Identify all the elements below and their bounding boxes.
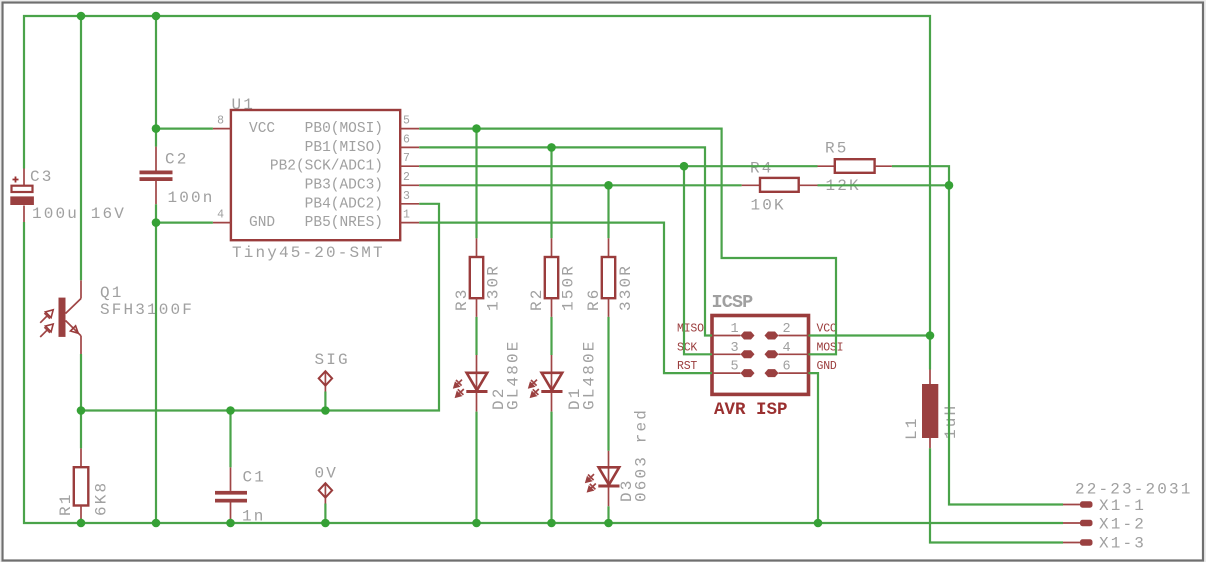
wire C1 top: [229, 411, 231, 468]
pin number 6: [403, 133, 410, 146]
wire ICSP GND to 0V bus: [809, 373, 819, 523]
ICSP signal VCC: [817, 323, 837, 336]
wire R1 top: [80, 411, 82, 449]
ICSP pin number 6: [783, 360, 791, 375]
svg-text:6: 6: [783, 360, 791, 375]
svg-text:Tiny45-20-SMT: Tiny45-20-SMT: [232, 244, 385, 262]
svg-text:PB3(ADC3): PB3(ADC3): [305, 178, 383, 194]
value D2 GL480E: [505, 339, 523, 410]
junction 0V bus D2: [472, 519, 481, 528]
svg-text:150R: 150R: [560, 264, 578, 311]
svg-text:PB4(ADC2): PB4(ADC2): [305, 196, 383, 212]
wire Q1 collector: [80, 16, 82, 280]
svg-text:R5: R5: [825, 140, 849, 158]
pin label PB5(NRES): [305, 215, 383, 231]
svg-text:MOSI: MOSI: [817, 341, 844, 354]
net label 0V: [315, 465, 339, 483]
wire D3 to 0V bus: [607, 506, 609, 523]
svg-text:1: 1: [403, 209, 410, 222]
wire 0V symbol stub: [324, 504, 326, 524]
svg-text:PB5(NRES): PB5(NRES): [305, 215, 383, 231]
LED D3: [585, 451, 620, 507]
op-amp U1 ATtiny45 box: [231, 110, 400, 240]
svg-text:C2: C2: [165, 151, 189, 169]
junction SIG bus Q1: [77, 406, 86, 415]
svg-text:6: 6: [403, 133, 410, 146]
svg-text:X1-3: X1-3: [1099, 535, 1146, 553]
wire C2 top: [155, 16, 157, 147]
label R3: [453, 287, 471, 311]
ICSP pin number 5: [731, 360, 739, 375]
pin 7 stub: [400, 165, 419, 167]
junction 0V bus D1: [547, 519, 556, 528]
connector pin X1-2: [1063, 520, 1093, 526]
value C2 100n: [168, 189, 215, 207]
pin label VCC: [249, 121, 275, 137]
junction SIG bus C1: [226, 406, 235, 415]
label C1: [243, 469, 267, 487]
connector pin X1-1: [1063, 501, 1093, 507]
value R4 10K: [751, 197, 786, 215]
wire VCC top bus to L1: [24, 16, 930, 370]
junction pin8 C2: [152, 124, 161, 133]
svg-text:4: 4: [217, 209, 224, 222]
wire net MOSI pin5 to ICSP pad4: [419, 129, 836, 355]
junction top bus Q1: [77, 12, 86, 21]
wire R3 top: [475, 129, 477, 239]
svg-text:R6: R6: [585, 287, 603, 311]
svg-text:10K: 10K: [751, 197, 786, 215]
svg-text:X1-1: X1-1: [1099, 497, 1146, 515]
svg-text:8: 8: [217, 115, 224, 128]
value C3 100u 16V: [32, 205, 126, 223]
label X1-3: [1099, 535, 1146, 553]
svg-text:5: 5: [731, 360, 739, 375]
ICSP pin 2 pad: [765, 332, 809, 340]
junction 0V bus ICSP GND: [814, 519, 823, 528]
wire net PB3 pin2 to R4: [419, 184, 741, 186]
wire pin4 GND: [156, 222, 213, 224]
junction R4 R5 X1-1: [945, 181, 954, 190]
label X1-2: [1099, 516, 1146, 534]
svg-text:L1: L1: [903, 416, 921, 440]
svg-text:SCK: SCK: [677, 341, 697, 354]
pin number 2: [403, 171, 410, 184]
label C3: [30, 168, 54, 186]
junction ICSP VCC rail: [926, 331, 935, 340]
wire SIG bus to pin3: [81, 204, 439, 411]
resistor R2: [545, 238, 558, 317]
svg-text:C3: C3: [30, 168, 54, 186]
label L1: [903, 416, 921, 440]
wire junction to X1-1: [949, 185, 1063, 504]
svg-text:22-23-2031: 22-23-2031: [1075, 481, 1193, 499]
svg-text:PB2(SCK/ADC1): PB2(SCK/ADC1): [270, 159, 383, 175]
pin number 5: [403, 115, 410, 128]
label ICSP: [712, 292, 754, 313]
svg-text:100u 16V: 100u 16V: [32, 205, 126, 223]
pin number 3: [403, 190, 410, 203]
svg-text:R4: R4: [750, 160, 774, 178]
junction 0V bus symbol: [321, 519, 330, 528]
resistor R4: [742, 178, 818, 192]
svg-text:GND: GND: [817, 360, 837, 373]
value R2 150R: [560, 264, 578, 311]
svg-text:4: 4: [783, 341, 791, 356]
svg-text:GL480E: GL480E: [505, 339, 523, 410]
label C2: [165, 151, 189, 169]
pin 3 stub: [400, 203, 419, 205]
value R6 330R: [617, 264, 635, 311]
value X1 22-23-2031: [1075, 481, 1193, 499]
resistor R3: [470, 238, 483, 317]
junction 0V bus C2: [152, 519, 161, 528]
svg-text:0V: 0V: [315, 465, 339, 483]
ICSP value AVR ISP: [714, 400, 788, 420]
svg-text:X1-2: X1-2: [1099, 516, 1146, 534]
value C1 1n: [242, 508, 266, 526]
wire ICSP VCC to L1: [809, 334, 931, 336]
pin 5 stub: [400, 128, 419, 130]
wire L1 bottom to X1-3: [930, 448, 1063, 542]
svg-text:MISO: MISO: [677, 323, 704, 336]
wire net SCK branch to ICSP pad3: [684, 166, 712, 354]
junction 0V bus R1: [77, 519, 86, 528]
capacitor C3: [10, 169, 34, 223]
ICSP signal SCK: [677, 341, 697, 354]
junction pin4 C2: [152, 218, 161, 227]
junction pin2 R6: [604, 181, 613, 190]
pin 4 GND stub: [213, 222, 231, 224]
supply symbol SIG: [319, 371, 332, 391]
svg-text:AVR ISP: AVR ISP: [714, 400, 788, 420]
ICSP pin 3 pad: [712, 350, 755, 358]
label U1: [232, 96, 256, 114]
svg-text:C1: C1: [243, 469, 267, 487]
svg-text:U1: U1: [232, 96, 256, 114]
junction top bus C2: [152, 12, 161, 21]
svg-text:SIG: SIG: [315, 351, 350, 369]
LED D2: [453, 355, 488, 412]
svg-text:2: 2: [783, 322, 791, 337]
pin number 1: [403, 209, 410, 222]
label Q1: [100, 284, 124, 302]
wire R5 right to junction: [892, 166, 949, 185]
junction SIG bus symbol: [321, 406, 330, 415]
wire net PB3 branch to R6: [607, 185, 609, 238]
wire C2 bottom to 0V bus: [155, 204, 157, 523]
ICSP pin number 4: [783, 341, 791, 356]
ICSP pin 1 pad: [712, 332, 755, 340]
ICSP pin number 3: [731, 341, 739, 356]
svg-text:0603 red: 0603 red: [633, 408, 651, 502]
junction 0V bus D3: [604, 519, 613, 528]
wire R1 bottom: [80, 519, 82, 524]
svg-text:3: 3: [731, 341, 739, 356]
svg-text:R1: R1: [57, 492, 75, 516]
svg-text:130R: 130R: [485, 264, 503, 311]
pin label PB4(ADC2): [305, 196, 383, 212]
resistor R5: [818, 159, 892, 173]
svg-text:100n: 100n: [168, 189, 215, 207]
label D1: [566, 386, 584, 410]
value Q1 SFH3100F: [100, 301, 194, 319]
junction 0V bus C1: [226, 519, 235, 528]
label X1-1: [1099, 497, 1146, 515]
wire D2 to 0V bus: [475, 412, 477, 523]
svg-text:3: 3: [403, 190, 410, 203]
svg-text:R3: R3: [453, 287, 471, 311]
label R4: [750, 160, 774, 178]
value U1 Tiny45-20-SMT: [232, 244, 385, 262]
svg-text:7: 7: [403, 152, 410, 165]
pin label PB1(MISO): [305, 140, 383, 156]
value D1 GL480E: [581, 339, 599, 410]
svg-text:6K8: 6K8: [93, 481, 111, 516]
svg-text:1: 1: [731, 322, 739, 337]
label R5: [825, 140, 849, 158]
ICSP pin number 2: [783, 322, 791, 337]
wire C3 bottom and 0V bottom bus: [24, 222, 1063, 523]
pin 2 stub: [400, 184, 419, 186]
svg-text:GND: GND: [249, 215, 275, 231]
label R2: [528, 287, 546, 311]
svg-text:5: 5: [403, 115, 410, 128]
LED D1: [528, 355, 563, 412]
wire net RST pin1 to ICSP pad5: [419, 223, 712, 374]
wire R2 top: [550, 147, 552, 238]
svg-text:GL480E: GL480E: [581, 339, 599, 410]
svg-text:RST: RST: [677, 360, 697, 373]
pin 8 VCC stub: [213, 128, 231, 130]
junction pin7 SCK: [680, 162, 689, 171]
svg-text:2: 2: [403, 171, 410, 184]
value R1 6K8: [93, 481, 111, 516]
svg-text:PB0(MOSI): PB0(MOSI): [305, 121, 383, 137]
wire SIG symbol stub: [324, 392, 326, 411]
wire pin8 VCC: [156, 128, 213, 130]
net label SIG: [315, 351, 350, 369]
pin 6 stub: [400, 146, 419, 148]
connector pin X1-3: [1063, 539, 1093, 545]
wire C1 bottom: [229, 519, 231, 523]
transistor Q1 phototransistor: [40, 280, 81, 354]
ICSP pin 6 pad: [765, 369, 809, 377]
svg-text:Q1: Q1: [100, 284, 124, 302]
pin label GND: [249, 215, 275, 231]
resistor R6: [602, 238, 615, 317]
label R1: [57, 492, 75, 516]
svg-text:PB1(MISO): PB1(MISO): [305, 140, 383, 156]
wire R4 right to junction: [818, 184, 950, 186]
wire R3 to D2: [475, 317, 477, 355]
pin label PB2(SCK/ADC1): [270, 159, 383, 175]
label R6: [585, 287, 603, 311]
ICSP signal RST: [677, 360, 697, 373]
svg-text:R2: R2: [528, 287, 546, 311]
pin 1 stub: [400, 222, 419, 224]
wire net SCK pin7 to R5: [419, 165, 817, 167]
svg-text:330R: 330R: [617, 264, 635, 311]
supply symbol 0V: [319, 483, 332, 503]
label D3: [618, 478, 636, 502]
pin number 8: [217, 115, 224, 128]
label D2: [490, 386, 508, 410]
wire Q1 emitter to SIG bus: [80, 354, 82, 411]
ICSP pin 5 pad: [712, 369, 755, 377]
wire R2 to D1: [550, 317, 552, 355]
wire R6 to D3: [607, 317, 609, 451]
ICSP pin number 1: [731, 322, 739, 337]
svg-text:VCC: VCC: [817, 323, 837, 336]
svg-text:ICSP: ICSP: [712, 292, 754, 313]
ICSP signal MOSI: [817, 341, 844, 354]
wire D1 to 0V bus: [550, 412, 552, 523]
pin number 7: [403, 152, 410, 165]
pin label PB0(MOSI): [305, 121, 383, 137]
inductor L1: [922, 370, 938, 449]
capacitor C1: [215, 467, 247, 520]
capacitor C2: [140, 147, 173, 205]
resistor R1: [74, 448, 89, 518]
value R3 130R: [485, 264, 503, 311]
value R5 12K: [826, 177, 861, 195]
value L1 1uH: [942, 404, 960, 439]
ICSP pin 4 pad: [765, 350, 809, 358]
value D3 0603 red: [633, 408, 651, 502]
svg-text:VCC: VCC: [249, 121, 275, 137]
wire net MISO pin6 to ICSP pad1: [419, 147, 712, 335]
pin label PB3(ADC3): [305, 178, 383, 194]
svg-text:1uH: 1uH: [942, 404, 960, 439]
ICSP signal MISO: [677, 323, 704, 336]
junction pin6 R2: [547, 143, 556, 152]
connector ICSP box: [712, 316, 809, 395]
ICSP signal GND: [817, 360, 837, 373]
pin number 4: [217, 209, 224, 222]
junction pin5 R3: [472, 124, 481, 133]
svg-text:SFH3100F: SFH3100F: [100, 301, 194, 319]
